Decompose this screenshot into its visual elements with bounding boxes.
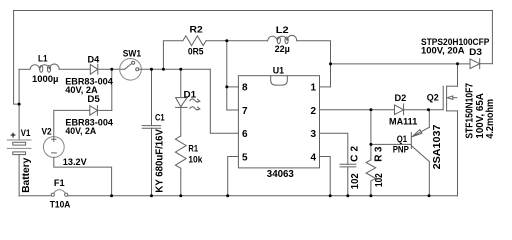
svg-text:8: 8 <box>242 83 248 94</box>
diode D4 <box>90 64 98 74</box>
resistor R2 branch riser <box>163 41 183 70</box>
node pin5 ground <box>226 194 229 197</box>
wire left frame drop to battery node <box>14 11 20 105</box>
svg-text:1000µ: 1000µ <box>32 74 58 85</box>
wire SW1 to pin6 corner <box>139 68 211 70</box>
wire Q2 drain riser <box>457 64 459 86</box>
node 13.2V ground <box>110 194 113 197</box>
wire main rail left segment into L1 <box>19 68 30 70</box>
wire pin1 stub <box>320 86 331 88</box>
wire R1 to ground bus <box>180 168 182 196</box>
node C1 ground <box>150 194 153 197</box>
node Q2 gate <box>427 108 430 111</box>
switch SW1 <box>120 59 142 81</box>
wire pin5 to ground <box>228 157 239 196</box>
node R2 right <box>225 39 228 42</box>
svg-text:SW1: SW1 <box>123 48 142 59</box>
svg-text:2: 2 <box>310 106 316 117</box>
wire right frame drop to D3 cathode <box>491 11 493 64</box>
wire D4 to SW1 <box>98 68 125 70</box>
svg-text:5: 5 <box>242 152 248 163</box>
svg-text:Q2: Q2 <box>427 93 439 104</box>
svg-text:U1: U1 <box>273 66 285 77</box>
svg-text:Battery: Battery <box>21 157 32 193</box>
svg-text:KY 680uF/16V: KY 680uF/16V <box>154 129 165 193</box>
svg-text:D3: D3 <box>469 47 482 58</box>
svg-text:V1: V1 <box>21 128 31 139</box>
node pin1/L2 <box>329 62 332 65</box>
node D1 top <box>179 68 182 71</box>
wire battery-plus vertical riser <box>18 69 20 140</box>
wire output rail to D3 <box>331 63 471 65</box>
svg-text:R1: R1 <box>188 144 198 155</box>
node Q2 drain <box>456 62 459 65</box>
svg-text:102: 102 <box>350 173 361 189</box>
svg-text:V2: V2 <box>42 127 52 138</box>
fuse F1 <box>19 190 68 197</box>
diode D1 branch <box>176 69 187 136</box>
svg-text:102: 102 <box>374 173 385 187</box>
resistor R3 branch <box>366 110 376 196</box>
svg-text:R2: R2 <box>190 25 203 36</box>
wire D4/D5 junction vertical <box>111 69 113 110</box>
wire top bus <box>14 10 493 12</box>
node pin8 <box>225 85 228 88</box>
svg-text:+: + <box>10 130 16 141</box>
node R3 top <box>369 108 372 111</box>
svg-text:6: 6 <box>242 129 248 140</box>
inductor L2 <box>268 35 297 43</box>
wire pin2 rail to Q2 gate <box>320 109 395 111</box>
wire pin3 to C2 <box>320 133 348 164</box>
LED arrows of D1 <box>190 99 200 110</box>
wire R2 to L2 <box>206 40 268 42</box>
source V2 <box>43 110 64 157</box>
transistor Q2 <box>443 86 457 196</box>
wire R2/pin8 riser and pin stubs <box>227 41 239 110</box>
node R3 ground <box>369 194 372 197</box>
node C1 top <box>150 68 153 71</box>
resistor R1 zigzag <box>175 136 186 168</box>
svg-text:D2: D2 <box>395 93 407 104</box>
svg-text:Q1: Q1 <box>397 134 408 145</box>
wire main rail down to pin6 <box>210 69 238 133</box>
node pin4 ground <box>329 194 332 197</box>
wire V2 bottom 13.2V return <box>54 157 112 195</box>
node battery/frame <box>18 103 21 106</box>
svg-text:PNP: PNP <box>393 144 410 155</box>
wire D2 to gate <box>404 109 444 111</box>
diode D2 <box>395 104 404 115</box>
diode D5 <box>54 106 112 116</box>
transistor Q1 <box>371 110 429 196</box>
node Q1 collector ground <box>428 194 431 197</box>
wire D3 to right frame <box>480 63 493 65</box>
svg-text:C1: C1 <box>155 112 165 123</box>
svg-text:L1: L1 <box>38 54 48 65</box>
node R1 ground <box>179 194 182 197</box>
svg-text:F1: F1 <box>54 178 65 189</box>
battery V1 <box>7 140 31 196</box>
svg-text:7: 7 <box>242 106 248 117</box>
inductor L1 <box>30 64 59 72</box>
svg-text:D5: D5 <box>87 94 100 105</box>
svg-text:D4: D4 <box>88 55 100 66</box>
wire L2 corner down through pin1 node <box>297 41 331 87</box>
svg-text:4.2mohm: 4.2mohm <box>485 99 496 139</box>
svg-text:L2: L2 <box>276 25 289 36</box>
svg-text:10k: 10k <box>188 154 203 165</box>
node D4 cathode <box>110 68 113 71</box>
svg-text:22µ: 22µ <box>275 44 290 55</box>
node Q1 base <box>369 143 372 146</box>
svg-text:4: 4 <box>310 152 316 163</box>
svg-text:T10A: T10A <box>50 200 71 211</box>
diode D3 <box>470 59 480 69</box>
svg-text:D1: D1 <box>184 89 197 100</box>
svg-text:13.2V: 13.2V <box>63 157 87 168</box>
node R2 left <box>162 68 165 71</box>
svg-text:100V, 20A: 100V, 20A <box>421 45 465 56</box>
svg-text:2SA1037: 2SA1037 <box>432 124 443 169</box>
svg-text:1: 1 <box>310 83 316 94</box>
IC U1 box <box>238 76 319 168</box>
wire L1 to D4 <box>59 68 90 70</box>
capacitor C1 branch <box>142 69 160 196</box>
wire ground bus <box>68 195 458 197</box>
node C2 ground <box>346 194 349 197</box>
svg-text:34063: 34063 <box>267 169 294 180</box>
svg-text:MA111: MA111 <box>389 117 418 128</box>
svg-text:3: 3 <box>310 129 316 140</box>
svg-text:40V, 2A: 40V, 2A <box>65 126 96 137</box>
wire pin4 to ground <box>320 157 331 196</box>
resistor R2 zigzag <box>183 36 206 46</box>
svg-text:0R5: 0R5 <box>188 46 204 57</box>
capacitor C2 <box>340 164 356 196</box>
